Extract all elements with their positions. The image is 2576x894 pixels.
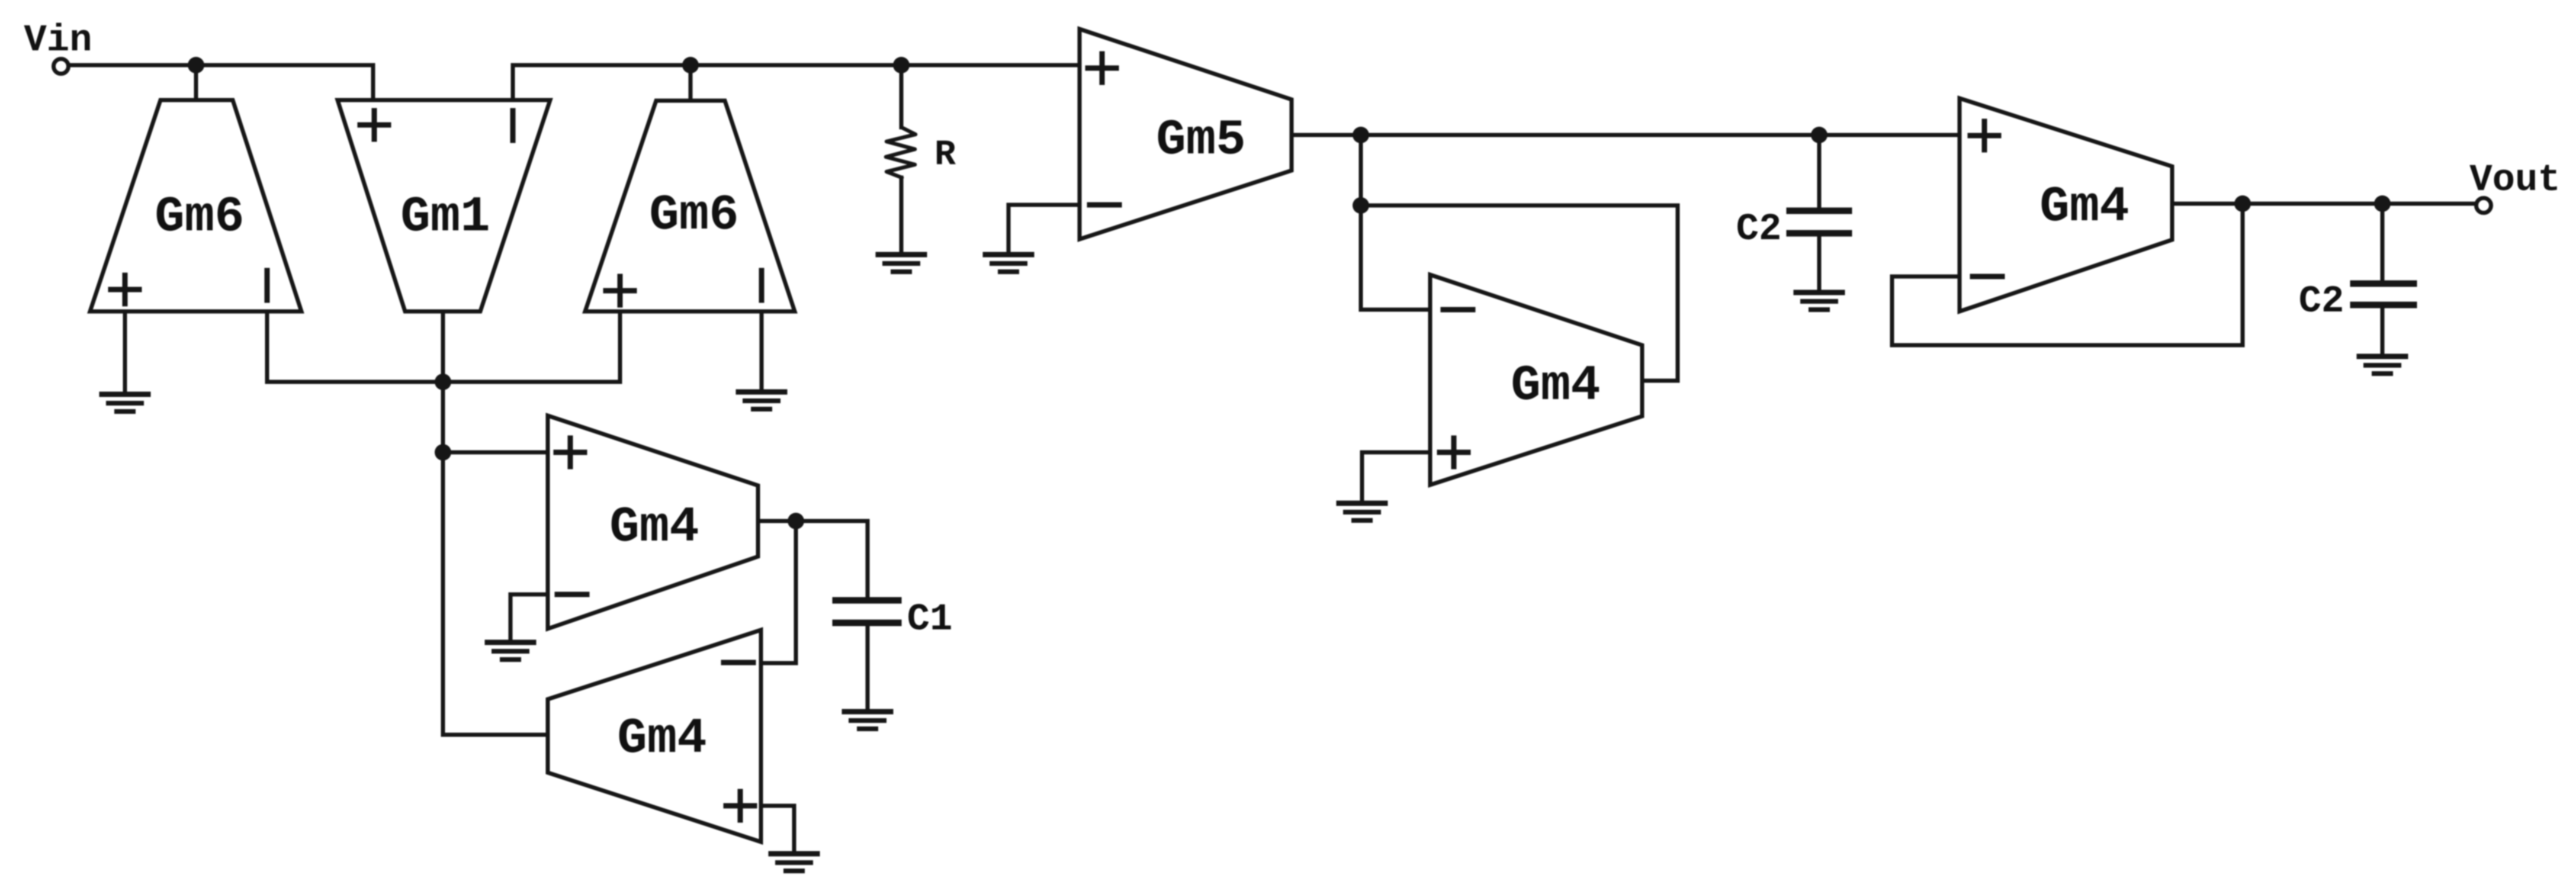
wire node B to Gm4 plus bbox=[443, 451, 548, 455]
junction Gm5 output / feedback bbox=[1353, 127, 1369, 143]
svg-text:C1: C1 bbox=[907, 599, 953, 641]
svg-text:Vin: Vin bbox=[24, 20, 92, 62]
wire Gm6 plus to ground bbox=[123, 311, 127, 393]
junction rail/R bbox=[893, 57, 910, 73]
ground (Gm4 middle plus) bbox=[1339, 503, 1385, 520]
minus input Gm4 lower bbox=[724, 660, 753, 665]
terminal Vin bbox=[54, 59, 69, 74]
ground (Gm6 second minus) bbox=[738, 392, 785, 409]
svg-text:Gm5: Gm5 bbox=[1156, 112, 1245, 169]
svg-text:C2: C2 bbox=[1736, 208, 1782, 251]
ground (Gm4 lower plus) bbox=[771, 854, 817, 871]
minus input Gm6 bbox=[265, 271, 270, 300]
wire Gm4 upper output bbox=[758, 521, 868, 597]
junction node C bbox=[1353, 197, 1369, 214]
minus input Gm1 bbox=[510, 111, 516, 140]
wire Gm5 minus to ground bbox=[1008, 205, 1080, 253]
ground (C2 second) bbox=[2359, 356, 2405, 374]
ground (Gm5 minus) bbox=[985, 255, 1032, 272]
svg-text:Gm4: Gm4 bbox=[609, 500, 699, 556]
plus input Gm4 lower bbox=[726, 792, 754, 820]
ground (C2 first) bbox=[1796, 292, 1842, 310]
wire Gm1 output down to lower Gm4 output bbox=[443, 311, 548, 735]
capacitor C1 bbox=[836, 597, 898, 604]
capacitor C2 second bbox=[2381, 204, 2385, 280]
svg-text:Gm6: Gm6 bbox=[649, 188, 738, 244]
wire Gm4 right output bbox=[2172, 202, 2477, 206]
svg-text:Gm4: Gm4 bbox=[1511, 358, 1600, 414]
op-amp Gm6 (second) bbox=[585, 101, 795, 311]
junction output/feedback bbox=[2234, 195, 2251, 212]
wire Vin rail to Gm1 plus bbox=[71, 65, 373, 100]
wire Gm4 lower plus to ground bbox=[761, 806, 794, 853]
op-amp Gm4 (middle feedback) bbox=[1430, 275, 1642, 485]
wire bus (Gm6 minus / Gm1 out / Gm6#2 plus) bbox=[267, 311, 620, 382]
op-amp Gm4 (right output) bbox=[1960, 98, 2172, 311]
wire node C to Gm4 mid minus bbox=[1361, 205, 1430, 310]
wire Gm6#2 input stub bbox=[689, 65, 693, 101]
junction rail/Gm6#2 bbox=[682, 57, 699, 73]
resistor R bbox=[900, 65, 904, 127]
plus input Gm4 middle bbox=[1440, 438, 1468, 467]
ground (C1) bbox=[844, 712, 891, 729]
junction bus with Gm1 output bbox=[435, 374, 451, 390]
junction rail/C2 first bbox=[1811, 127, 1827, 143]
wire feedback down bbox=[2241, 204, 2245, 345]
svg-text:Gm6: Gm6 bbox=[155, 189, 244, 246]
svg-text:R: R bbox=[934, 135, 956, 175]
plus input Gm6 bbox=[111, 275, 139, 304]
junction node B (Gm4 plus tap) bbox=[435, 444, 451, 461]
minus input Gm4 middle bbox=[1443, 307, 1473, 313]
minus input Gm5 bbox=[1090, 202, 1119, 208]
terminal Vout bbox=[2477, 198, 2491, 213]
plus input Gm4 right bbox=[1970, 121, 1999, 150]
svg-text:Gm4: Gm4 bbox=[2039, 179, 2129, 236]
plus input Gm6 second bbox=[606, 276, 634, 305]
wire Gm6 minus down to bus bbox=[265, 311, 269, 382]
op-amp Gm4 (upper left block) bbox=[548, 416, 758, 629]
wire feedback to lower Gm4 minus bbox=[761, 521, 796, 663]
wire Gm4 upper minus to ground bbox=[510, 594, 548, 641]
wire Gm6#2 minus to ground bbox=[760, 311, 764, 391]
minus input Gm6 second bbox=[759, 271, 765, 300]
wire junction down bbox=[1359, 135, 1363, 205]
ground (Gm6 first plus) bbox=[102, 394, 148, 411]
junction Gm4 upper output bbox=[788, 513, 804, 529]
minus input Gm4 upper bbox=[557, 592, 587, 597]
wire Gm5 output bbox=[1292, 133, 1960, 137]
svg-text:Gm4: Gm4 bbox=[617, 711, 706, 767]
wire Gm4 right minus loop bbox=[1892, 276, 2243, 345]
op-amp Gm5 bbox=[1080, 29, 1292, 239]
junction node A (Vin/Gm6) bbox=[188, 57, 204, 73]
minus input Gm4 right bbox=[1973, 274, 2002, 279]
op-amp Gm4 (lower left block, mirrored) bbox=[548, 630, 761, 842]
svg-text:C2: C2 bbox=[2299, 281, 2344, 323]
op-amp Gm1 bbox=[338, 100, 550, 311]
plus input Gm4 upper bbox=[556, 438, 584, 467]
plus input Gm1 bbox=[360, 111, 388, 139]
plus input Gm5 bbox=[1088, 54, 1116, 82]
svg-text:Gm1: Gm1 bbox=[400, 189, 490, 246]
junction output/C2 second bbox=[2374, 195, 2391, 212]
op-amp Gm6 (first) bbox=[90, 100, 301, 311]
wire Gm1 minus rail to Gm5 plus bbox=[513, 65, 1080, 100]
capacitor C2 first bbox=[1817, 135, 1822, 207]
wire Gm6 input stub bbox=[194, 65, 198, 100]
wire feedback top (node C to Gm4 mid output) bbox=[1361, 205, 1678, 381]
svg-text:Vout: Vout bbox=[2469, 159, 2561, 202]
wire Gm4 middle plus to ground bbox=[1362, 452, 1430, 502]
ground (R) bbox=[878, 255, 924, 272]
ground (Gm4 upper minus) bbox=[487, 642, 534, 660]
